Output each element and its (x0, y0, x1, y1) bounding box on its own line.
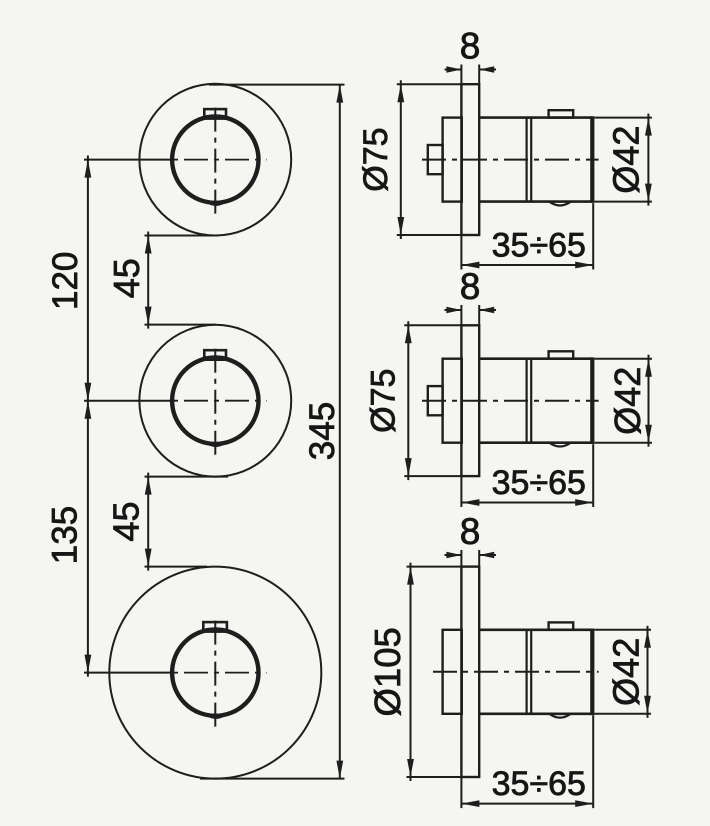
knob tab (top, front view) (204, 109, 226, 119)
dimension line 8 (bottom side view) (445, 552, 497, 558)
handle end cap (top side view) (590, 116, 594, 203)
knob tab (bottom, front view) (203, 622, 227, 632)
trim sleeve and handle cylinder (top side view) (479, 118, 592, 202)
handle circle (top, front view, thick) (172, 116, 258, 202)
wall plate 8mm (middle side view) (461, 325, 479, 476)
trim sleeve and handle cylinder (bottom side view) (479, 630, 592, 714)
svg-text:120: 120 (46, 252, 85, 310)
dimension line Ø42 (middle side view) (595, 355, 653, 447)
dimension 35÷65 extension lines (bottom side view) (461, 715, 593, 808)
dimension line 120 (top to middle centre) (85, 156, 92, 401)
handle bottom lug (top side view) (550, 202, 571, 206)
label "Ø42" (top side view) (606, 126, 647, 194)
dimension line 35÷65 (bottom side view) (461, 800, 593, 807)
vertical centerline (top circle) (214, 108, 216, 216)
handle knob tab (top side view) (549, 110, 574, 117)
sleeve/handle joint double line (bottom side view) (527, 630, 532, 714)
label "8" (top side view) (460, 25, 481, 66)
handle end cap (bottom side view) (590, 629, 594, 716)
dimension 35÷65 extension lines (middle side view) (461, 444, 593, 507)
dimension line 135 (middle to bottom centre) (85, 401, 92, 677)
connection stub (top side view) (428, 145, 443, 174)
handle bottom lug (bottom, front view) (206, 714, 226, 718)
svg-text:Ø75: Ø75 (364, 369, 402, 433)
dimension line 35÷65 (middle side view) (461, 499, 593, 506)
vertical centerline (middle circle) (214, 349, 216, 457)
label "Ø75" (top side view) (357, 127, 395, 191)
label "45" (upper) (106, 258, 147, 298)
dimension 8 extension lines (bottom side view) (461, 550, 479, 567)
sleeve/handle joint double line (middle side view) (527, 359, 532, 443)
svg-text:8: 8 (460, 266, 481, 307)
dimension line 35÷65 (top side view) (461, 262, 593, 269)
vertical centerline (bottom circle) (214, 621, 216, 729)
centerline (bottom side view) (433, 671, 599, 673)
centerline (top side view) (422, 159, 599, 161)
escutcheon plate circle (bottom, front view) (109, 567, 321, 779)
dimension line 45 (gap top/middle plates) (145, 232, 219, 329)
dimension line Ø42 (bottom side view) (595, 626, 652, 718)
dimension line 345 (overall height) (200, 85, 345, 779)
handle circle (middle, front view, thick) (172, 358, 258, 444)
svg-text:8: 8 (460, 511, 481, 552)
handle bottom lug (bottom side view) (550, 714, 571, 718)
handle knob tab (middle side view) (549, 351, 574, 358)
svg-text:Ø75: Ø75 (357, 127, 395, 191)
svg-text:8: 8 (460, 25, 481, 66)
label "35÷65" (top side view) (492, 227, 586, 265)
dimension 8 extension lines (top side view) (461, 65, 479, 85)
valve body behind wall (top side view) (443, 118, 462, 202)
svg-text:345: 345 (303, 402, 342, 460)
dimension 35÷65 extension lines (top side view) (461, 203, 593, 269)
centerline (middle side view) (422, 400, 599, 402)
svg-text:Ø105: Ø105 (367, 627, 408, 716)
label "Ø75" (middle side view) (364, 369, 402, 433)
horizontal centerline / extension line (top circle) (84, 159, 267, 161)
connection stub (middle side view) (428, 386, 443, 415)
svg-text:Ø42: Ø42 (605, 638, 646, 706)
sleeve/handle joint double line (top side view) (527, 118, 532, 202)
horizontal centerline / extension line (bottom circle) (84, 672, 267, 674)
horizontal centerline / extension line (middle circle) (84, 400, 267, 402)
label "8" (bottom side view) (460, 511, 481, 552)
label "135" (46, 506, 85, 564)
handle bottom lug (middle, front view) (206, 442, 226, 446)
wall plate 8mm (top side view) (461, 84, 479, 235)
label "Ø42" (middle side view) (607, 367, 648, 435)
dimension line Ø42 (top side view) (595, 114, 652, 206)
svg-text:35÷65: 35÷65 (492, 464, 586, 502)
escutcheon plate circle (middle, front view) (139, 325, 291, 477)
valve body behind wall (middle side view) (443, 359, 462, 443)
label "120" (46, 252, 85, 310)
valve body behind wall (bottom side view) (443, 630, 462, 714)
svg-text:Ø42: Ø42 (607, 367, 648, 435)
dimension 8 extension lines (middle side view) (461, 305, 479, 325)
label "35÷65" (middle side view) (492, 464, 586, 502)
label "Ø42" (bottom side view) (605, 638, 646, 706)
label "345" (303, 402, 342, 460)
handle circle (bottom, front view, thick) (172, 629, 258, 715)
label "Ø105" (bottom side view) (367, 627, 408, 716)
label "45" (lower) (106, 501, 147, 541)
handle end cap (middle side view) (590, 357, 594, 444)
handle knob tab (bottom side view) (549, 622, 574, 629)
svg-text:35÷65: 35÷65 (492, 227, 586, 265)
handle bottom lug (top, front view) (206, 201, 226, 205)
label "8" (middle side view) (460, 266, 481, 307)
svg-text:45: 45 (106, 258, 147, 298)
svg-text:Ø42: Ø42 (606, 126, 647, 194)
label "35÷65" (bottom side view) (492, 765, 586, 803)
dimension line Ø75 (top side view) (397, 80, 461, 239)
svg-text:135: 135 (46, 506, 85, 564)
knob tab (middle, front view) (204, 350, 226, 360)
trim sleeve and handle cylinder (middle side view) (479, 359, 592, 443)
svg-text:45: 45 (106, 501, 147, 541)
dimension line 8 (middle side view) (445, 307, 497, 313)
handle bottom lug (middle side view) (550, 443, 571, 447)
escutcheon plate circle (top, front view) (139, 84, 291, 236)
dimension line 45 (gap middle/bottom plates) (145, 473, 229, 571)
dimension line 8 (top side view) (445, 66, 497, 72)
wall plate 8mm (bottom side view) (461, 567, 479, 777)
svg-text:35÷65: 35÷65 (492, 765, 586, 803)
dimension line Ø105 (bottom side view) (407, 563, 462, 781)
dimension line Ø75 (middle side view) (404, 321, 461, 480)
